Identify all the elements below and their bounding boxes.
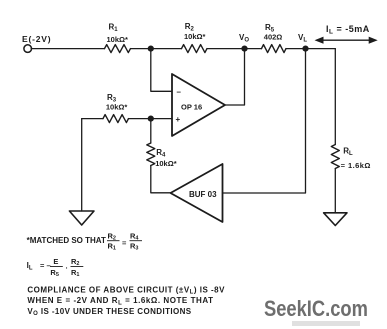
svg-text:R1: R1 (71, 268, 79, 278)
ground left (69, 211, 94, 225)
svg-text:R2: R2 (71, 257, 79, 267)
wire (225, 49, 245, 105)
svg-text:10kΩ*: 10kΩ* (184, 32, 206, 41)
svg-text:VO IS -10V UNDER THESE CONDITI: VO IS -10V UNDER THESE CONDITIONS (27, 307, 191, 317)
buffer U2 BUF 03 (171, 164, 223, 222)
wire (151, 49, 172, 92)
svg-text:IL = -5mA: IL = -5mA (326, 24, 370, 36)
svg-text:10kΩ*: 10kΩ* (107, 35, 129, 44)
svg-text:·: · (66, 263, 69, 272)
svg-text:R1: R1 (109, 23, 119, 34)
svg-text:–: – (177, 88, 182, 97)
svg-text:R4: R4 (156, 148, 166, 159)
svg-text:VO: VO (239, 33, 249, 44)
node VL (302, 46, 308, 52)
wire (129, 118, 173, 120)
svg-text:10kΩ*: 10kΩ* (106, 103, 128, 112)
wire (223, 49, 306, 193)
svg-text:R5: R5 (50, 268, 58, 278)
resistor RL (331, 145, 339, 169)
svg-text:E: E (53, 257, 58, 266)
svg-text:*MATCHED SO THAT: *MATCHED SO THAT (27, 236, 106, 245)
resistor R1 (105, 45, 131, 53)
resistor R5 (262, 45, 287, 53)
resistor R3 (103, 115, 129, 123)
wire (131, 48, 182, 50)
svg-text:R4: R4 (130, 231, 139, 241)
svg-text:VL: VL (298, 33, 307, 44)
svg-text:=: = (122, 239, 127, 248)
wire (31, 48, 104, 50)
svg-text:OP 16: OP 16 (181, 103, 202, 112)
wire (151, 166, 171, 193)
svg-text:402Ω: 402Ω (264, 33, 283, 42)
wire (81, 119, 83, 211)
svg-text:R2: R2 (108, 231, 116, 241)
op-amp U1 OP 16 (172, 74, 225, 136)
wire (207, 48, 262, 50)
svg-text:= 1.6kΩ: = 1.6kΩ (341, 161, 371, 170)
svg-text:COMPLIANCE OF ABOVE CIRCUIT (±: COMPLIANCE OF ABOVE CIRCUIT (±VL) IS -8V (27, 285, 225, 295)
node B (148, 116, 154, 122)
svg-text:R1: R1 (108, 241, 116, 251)
resistor R2 (182, 45, 208, 53)
annotation IL arrow (321, 39, 371, 41)
wire (334, 49, 336, 145)
svg-text:R3: R3 (130, 241, 138, 251)
wire (334, 169, 336, 213)
ground right (324, 213, 347, 226)
input terminal E (24, 45, 32, 53)
node A (148, 46, 154, 52)
watermark SeekIC.com (264, 296, 368, 321)
wire (150, 119, 152, 143)
node VO (241, 46, 247, 52)
wire (82, 118, 103, 120)
svg-text:+: + (176, 115, 181, 124)
svg-text:WHEN E = -2V AND RL = 1.6kΩ. N: WHEN E = -2V AND RL = 1.6kΩ. NOTE THAT (27, 296, 213, 306)
svg-text:E(-2V): E(-2V) (22, 34, 51, 44)
resistor R4 (147, 143, 155, 166)
svg-text:SeekIC.com: SeekIC.com (264, 296, 368, 321)
wire (286, 48, 335, 50)
svg-text:BUF 03: BUF 03 (189, 190, 217, 199)
svg-text:IL: IL (27, 261, 33, 271)
svg-text:10kΩ*: 10kΩ* (155, 159, 177, 168)
svg-text:RL: RL (343, 147, 353, 158)
svg-text:= –: = – (40, 261, 51, 270)
